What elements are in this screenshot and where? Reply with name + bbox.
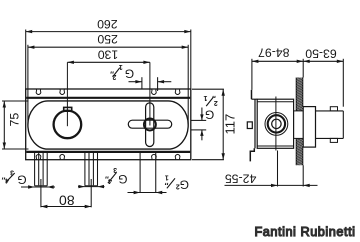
- rough-in box outline: [26, 89, 191, 160]
- cross circle: [144, 119, 156, 131]
- label G1/2 right: [204, 90, 218, 121]
- dia dim G3/4 middle: [78, 186, 105, 188]
- svg-text:75: 75: [7, 113, 21, 127]
- spout flange: [303, 107, 315, 148]
- dia dim G3/4 left: [21, 186, 55, 188]
- top notch 4: [175, 89, 180, 94]
- cross slot vertical: [146, 103, 154, 147]
- svg-text:117: 117: [222, 114, 237, 135]
- tab on circle top: [64, 107, 72, 111]
- dim G1/2 right (small, outlet dia): [191, 108, 207, 141]
- top notch 2: [60, 89, 65, 94]
- dim 42-55: [225, 151, 318, 187]
- svg-text:″: ″: [212, 90, 216, 99]
- dim 80 (bottom): [41, 179, 91, 207]
- bottom notch 1: [36, 154, 41, 159]
- bottom notch 2: [60, 154, 65, 159]
- svg-text:250: 250: [97, 32, 118, 46]
- svg-text:2: 2: [214, 99, 218, 106]
- box inner thick top line: [26, 97, 190, 99]
- plate bottom hook: [250, 148, 254, 161]
- cross slot horizontal: [128, 120, 171, 128]
- supply pipe 1 (left, G3/4): [35, 152, 48, 186]
- dim 117 (right of plan): [192, 89, 224, 160]
- cover plate (stadium): [28, 101, 188, 149]
- body centerline: [275, 97, 277, 151]
- svg-text:″: ″: [2, 172, 6, 181]
- dim G1/2 top (small): [129, 77, 172, 91]
- dim 75 (left): [2, 101, 29, 149]
- svg-text:G: G: [205, 107, 214, 121]
- cylinder top tab: [330, 107, 337, 111]
- svg-text:1: 1: [119, 63, 123, 70]
- svg-text:1: 1: [204, 94, 208, 101]
- svg-text:80: 80: [59, 192, 75, 208]
- svg-text:″: ″: [165, 177, 169, 186]
- supply pipe 2 (middle, G3/4): [85, 152, 98, 186]
- svg-text:3: 3: [10, 169, 14, 176]
- bottom notch 4: [175, 154, 180, 159]
- valve body: [257, 99, 293, 148]
- top notch 1: [36, 89, 41, 94]
- plate edge-on: [254, 99, 256, 148]
- svg-text:G: G: [118, 172, 127, 186]
- svg-text:2: 2: [176, 183, 180, 190]
- dim 250: [28, 45, 188, 125]
- box inner thick bottom line: [26, 151, 190, 153]
- svg-text:Fantini Rubinetti: Fantini Rubinetti: [254, 225, 355, 239]
- outlet pipe (G1/2, under cross): [140, 152, 156, 192]
- dim 260: [26, 30, 191, 89]
- mixer hole (big circle): [54, 111, 82, 139]
- centerline cross: [149, 62, 151, 125]
- svg-text:″: ″: [110, 66, 114, 75]
- label G3/4 bottom-left: [2, 169, 27, 187]
- svg-text:84-97: 84-97: [258, 45, 290, 59]
- wall hatch lines bottom: [296, 57, 303, 185]
- cartridge circles: [265, 113, 288, 136]
- svg-text:3: 3: [113, 166, 117, 173]
- svg-text:130: 130: [98, 48, 119, 62]
- top notch 3: [152, 89, 156, 94]
- dim 130: [67, 61, 149, 63]
- label G3/4 bottom-middle: [105, 166, 128, 186]
- cylinder bottom tab: [330, 138, 337, 142]
- svg-text:″: ″: [105, 171, 109, 180]
- pipe through wall: [294, 110, 304, 112]
- leader / dia dim G1/2 bottom: [128, 192, 167, 194]
- spout cylinder: [316, 111, 344, 138]
- svg-text:G: G: [17, 173, 26, 187]
- svg-text:42-55: 42-55: [225, 171, 257, 185]
- label G1/2 bottom-right: [165, 173, 190, 191]
- bottom notch 3: [152, 154, 156, 159]
- svg-text:63-50: 63-50: [305, 46, 337, 60]
- wall hatch lines top: [296, 57, 303, 185]
- plate left bump: [247, 122, 252, 129]
- dim 84-97 / 63-50: [252, 59, 343, 107]
- svg-text:260: 260: [97, 17, 118, 31]
- svg-text:G: G: [180, 178, 189, 192]
- plate top tab: [251, 90, 253, 99]
- centerline mixer: [66, 62, 68, 126]
- wall hatch boundaries: [296, 78, 303, 166]
- label G1/2 top: [110, 63, 134, 81]
- svg-text:G: G: [125, 67, 134, 81]
